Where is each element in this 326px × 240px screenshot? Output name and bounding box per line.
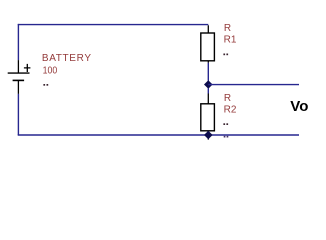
wire: R1 bottom to junction node: [207, 63, 209, 81]
wire top: battery positive to R1 top: [18, 24, 209, 26]
svg-text:BATTERY: BATTERY: [42, 53, 92, 64]
junction node: R1/R2/Vo (diamond dot): [204, 80, 213, 89]
svg-text:100: 100: [43, 66, 58, 77]
resistor R1: [201, 25, 215, 63]
wire bottom: battery negative rail to output: [18, 134, 299, 136]
wire left lower: battery - pin to bottom corner: [17, 94, 19, 135]
wire left upper: top corner down to battery + pin: [17, 24, 19, 60]
resistor R2 labels: R R2 .. ..: [223, 93, 236, 138]
svg-text:R1: R1: [224, 34, 237, 45]
wire: junction to Vo output: [208, 84, 299, 86]
svg-text:Vo: Vo: [290, 98, 308, 115]
svg-text:R2: R2: [224, 104, 237, 115]
battery labels: BATTERY 100 ..: [42, 53, 92, 86]
node label Vo: [290, 98, 308, 115]
resistor R2: [201, 88, 215, 139]
junction node: R2 bottom on ground rail (diamond dot): [204, 131, 213, 140]
battery BATTERY (value 100): [8, 60, 31, 94]
resistor R1 labels: R R1 ..: [223, 23, 236, 55]
svg-text:R: R: [224, 93, 231, 104]
svg-text:R: R: [224, 23, 231, 34]
